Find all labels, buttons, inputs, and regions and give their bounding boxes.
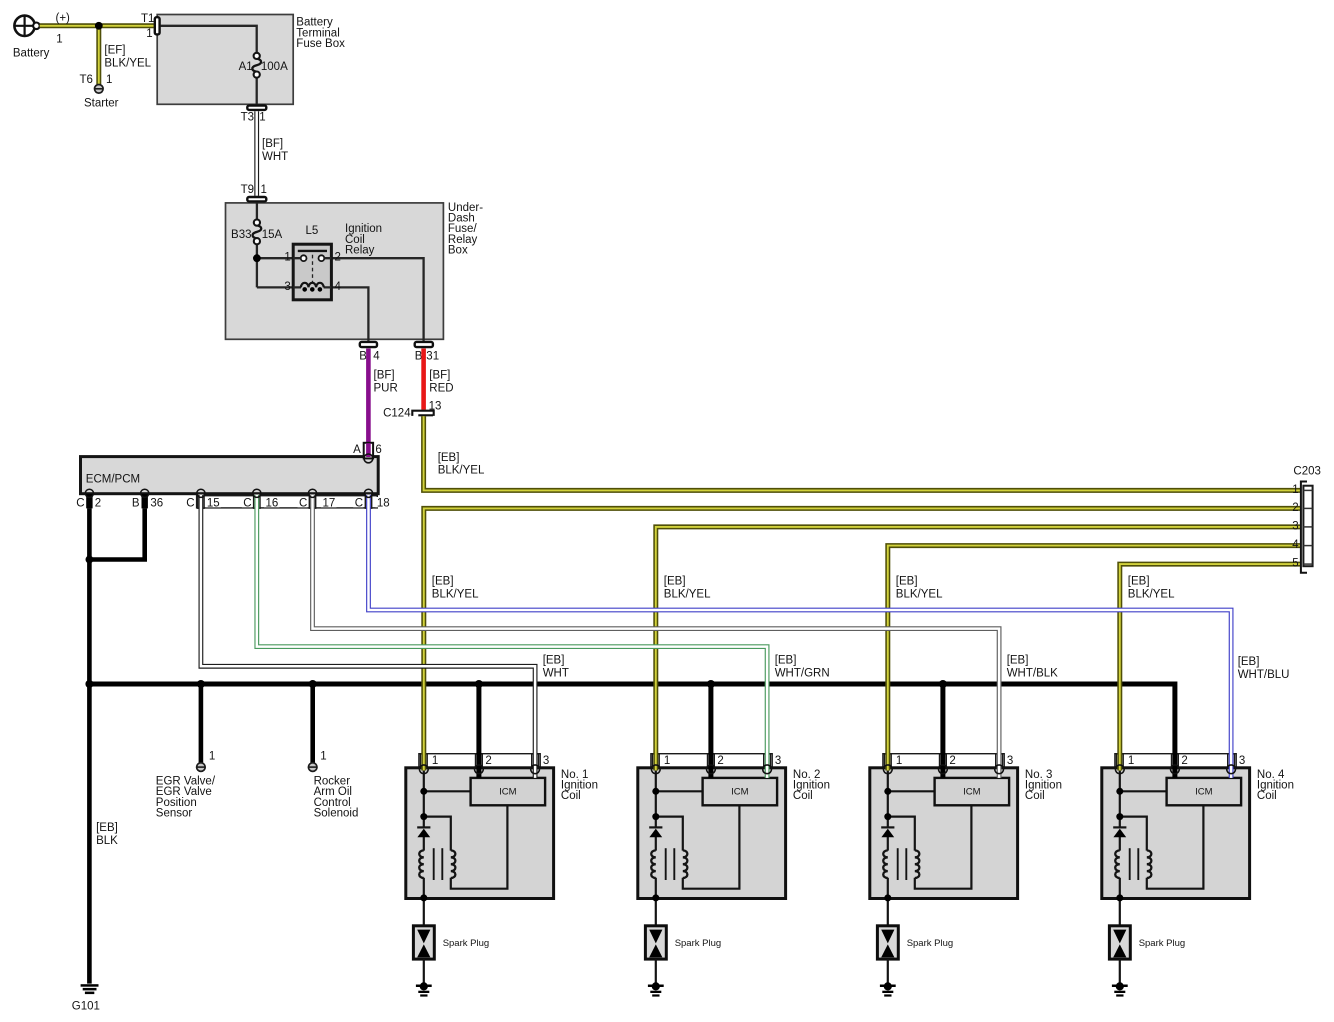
wires bus to coil pin 2: [479, 684, 943, 778]
wire [EB] BLK/YEL C203 pin 4 to coil No. 3 pin 1: [888, 546, 1301, 771]
fuse B33 15A: [231, 220, 282, 245]
svg-text:3: 3: [543, 755, 549, 767]
connector T9: [241, 184, 267, 201]
coil name label No. 3: [1025, 769, 1062, 802]
svg-text:C: C: [355, 498, 363, 510]
svg-text:1: 1: [146, 28, 152, 40]
svg-text:1: 1: [261, 184, 267, 196]
svg-text:T6: T6: [80, 74, 93, 86]
wire [EB] WHT/BLU ECM to coil pin 3: [369, 495, 1232, 778]
ECM bottom connector bracket C15-C18: [197, 496, 378, 508]
relay pin labels: [284, 225, 341, 293]
svg-text:[EB]: [EB]: [1128, 576, 1150, 588]
svg-text:[EB]: [EB]: [438, 452, 460, 464]
rocker arm solenoid label: [314, 775, 359, 819]
EGR valve label: [156, 775, 216, 819]
svg-text:[EB]: [EB]: [664, 576, 686, 588]
svg-text:Coil: Coil: [793, 790, 813, 802]
svg-text:[EB]: [EB]: [543, 655, 565, 667]
svg-text:WHT: WHT: [543, 667, 569, 679]
coil name label No. 4: [1257, 769, 1294, 802]
svg-text:Solenoid: Solenoid: [314, 808, 359, 820]
svg-text:ECM/PCM: ECM/PCM: [86, 474, 140, 486]
ignition coil No. 3: [870, 754, 1018, 926]
svg-text:Coil: Coil: [1025, 790, 1045, 802]
wire [EB] BLK from ECM C2/B36: [89, 508, 144, 559]
svg-text:1: 1: [432, 755, 438, 767]
battery: [14, 16, 39, 36]
svg-text:100A: 100A: [261, 61, 288, 73]
spark plug ground for No. 3: [880, 982, 896, 996]
svg-text:[EB]: [EB]: [96, 822, 118, 834]
svg-text:[BF]: [BF]: [429, 370, 450, 382]
svg-text:Spark Plug: Spark Plug: [443, 938, 489, 949]
pin circles: [85, 454, 1235, 774]
coil name label No. 1: [561, 769, 598, 802]
svg-text:BLK/YEL: BLK/YEL: [432, 589, 479, 601]
svg-text:T1: T1: [141, 13, 154, 25]
spark plug ground for No. 4: [1112, 982, 1128, 996]
svg-text:15: 15: [207, 498, 220, 510]
wire [EB] WHT/BLK ECM to coil pin 3: [313, 495, 1000, 778]
node: battery wire junction: [95, 22, 103, 30]
svg-text:Coil: Coil: [561, 790, 581, 802]
svg-text:ICM: ICM: [499, 787, 517, 798]
svg-text:Spark Plug: Spark Plug: [907, 938, 953, 949]
spark plug ground for No. 2: [648, 982, 664, 996]
svg-text:BLK/YEL: BLK/YEL: [1128, 589, 1175, 601]
spark plug for No. 3: [877, 926, 953, 983]
connector C203: [1301, 482, 1313, 573]
svg-text:3: 3: [1239, 755, 1245, 767]
svg-text:RED: RED: [429, 382, 453, 394]
battery terminal fuse box label: [296, 17, 345, 50]
svg-text:L5: L5: [306, 225, 319, 237]
svg-text:2: 2: [1292, 502, 1298, 514]
ECM pin labels: [76, 497, 391, 510]
battery area labels: [13, 12, 155, 109]
wire [EF] BLK/YEL battery to T1: [40, 23, 154, 28]
svg-text:1: 1: [284, 252, 290, 264]
svg-text:WHT/BLU: WHT/BLU: [1238, 669, 1290, 681]
svg-text:3: 3: [775, 755, 781, 767]
svg-text:PUR: PUR: [374, 382, 398, 394]
svg-text:1: 1: [259, 111, 265, 123]
wire [EB] WHT label: [543, 655, 569, 680]
svg-text:ICM: ICM: [731, 787, 749, 798]
svg-text:17: 17: [323, 498, 336, 510]
svg-text:15A: 15A: [262, 229, 283, 241]
wire [EB] BLK to G101: [89, 560, 118, 984]
ECM pin A16 stub: [353, 443, 382, 459]
svg-text:Fuse Box: Fuse Box: [296, 38, 345, 50]
spark plug ground for No. 1: [416, 982, 432, 996]
battery terminal fuse box: [157, 15, 293, 105]
wire [BF] WHT label: [262, 138, 288, 163]
wire [EB] BLK/YEL C203 pin 2 to coil No. 1 pin 1: [424, 508, 1301, 770]
svg-text:2: 2: [335, 252, 341, 264]
svg-text:Coil: Coil: [1257, 790, 1277, 802]
node: bus junctions: [85, 680, 947, 688]
svg-text:WHT/GRN: WHT/GRN: [775, 667, 830, 679]
svg-text:5: 5: [1292, 558, 1298, 570]
svg-text:T9: T9: [241, 184, 254, 196]
svg-text:3: 3: [284, 281, 290, 293]
svg-text:Starter: Starter: [84, 98, 119, 110]
wire ground bus: [89, 684, 1175, 778]
svg-text:T3: T3: [241, 111, 254, 123]
svg-text:C: C: [243, 498, 251, 510]
svg-text:13: 13: [429, 400, 442, 412]
connector C124: [383, 400, 441, 419]
svg-text:2: 2: [1181, 755, 1187, 767]
svg-text:C203: C203: [1293, 466, 1321, 478]
svg-text:Sensor: Sensor: [156, 808, 193, 820]
node: fuse B33 junction: [253, 254, 261, 262]
svg-text:A1: A1: [239, 61, 253, 73]
wire [EB] WHT/BLK label: [1007, 655, 1058, 680]
svg-text:C124: C124: [383, 408, 411, 420]
svg-text:BLK/YEL: BLK/YEL: [664, 589, 711, 601]
svg-text:WHT/BLK: WHT/BLK: [1007, 667, 1058, 679]
svg-text:[BF]: [BF]: [262, 138, 283, 150]
svg-text:[EB]: [EB]: [1007, 655, 1029, 667]
wire [EB] WHT/BLU label: [1238, 656, 1290, 681]
wire [EB] BLK/YEL label (coil 3): [896, 576, 943, 601]
wire [EB] WHT/GRN label: [775, 655, 830, 680]
ground G101: [72, 984, 100, 1012]
svg-text:[EB]: [EB]: [896, 576, 918, 588]
svg-text:3: 3: [1292, 521, 1298, 533]
relay L5 (ignition coil relay): [293, 244, 331, 300]
svg-text:B: B: [359, 351, 367, 363]
wire [EB] WHT ECM to coil pin 3: [201, 495, 535, 778]
svg-text:BLK/YEL: BLK/YEL: [104, 58, 151, 70]
svg-text:2: 2: [95, 498, 101, 510]
svg-text:1: 1: [896, 755, 902, 767]
svg-text:B: B: [132, 498, 140, 510]
wire [EB] BLK/YEL C203 pin 3 to coil No. 2 pin 1: [656, 527, 1301, 771]
wire [EB] BLK/YEL label (coil 1): [432, 576, 479, 601]
spark plug for No. 2: [645, 926, 721, 983]
svg-text:[EB]: [EB]: [432, 576, 454, 588]
wire [EF] BLK/YEL to starter: [96, 26, 101, 85]
svg-text:B33: B33: [231, 229, 251, 241]
wire [EB] BLK/YEL label (coil 2): [664, 576, 711, 601]
svg-text:31: 31: [426, 351, 439, 363]
svg-text:WHT: WHT: [262, 151, 288, 163]
spark plug for No. 4: [1109, 926, 1185, 983]
wire [BF] WHT T3 to T9: [254, 111, 259, 196]
fuse A1 100A: [239, 53, 288, 78]
svg-text:2: 2: [485, 755, 491, 767]
svg-text:4: 4: [373, 351, 380, 363]
wire [BF] PUR relay to ECM A16: [368, 349, 397, 444]
svg-text:A: A: [353, 444, 361, 456]
svg-text:3: 3: [1007, 755, 1013, 767]
svg-text:Spark Plug: Spark Plug: [1139, 938, 1185, 949]
svg-text:Battery: Battery: [13, 47, 50, 59]
spark plug for No. 1: [413, 926, 489, 983]
svg-text:[EB]: [EB]: [1238, 656, 1260, 668]
svg-text:1: 1: [106, 74, 112, 86]
svg-text:36: 36: [150, 498, 163, 510]
svg-text:1: 1: [1292, 484, 1298, 496]
svg-text:[EB]: [EB]: [775, 655, 797, 667]
wire [BF] RED relay to C124: [424, 349, 454, 410]
svg-text:BLK/YEL: BLK/YEL: [438, 465, 485, 477]
node: C2/B36 join: [86, 556, 94, 564]
connector T1: [155, 17, 160, 34]
under-dash fuse/relay box label: [448, 202, 483, 257]
connector B31: [415, 342, 439, 363]
svg-text:(+): (+): [56, 12, 71, 24]
EGR valve terminal: [197, 750, 216, 771]
ignition coil No. 2: [638, 754, 786, 926]
wire inside battery fuse box: [161, 26, 257, 104]
svg-text:Spark Plug: Spark Plug: [675, 938, 721, 949]
svg-text:18: 18: [377, 498, 390, 510]
C203 pin labels: [1292, 466, 1321, 570]
svg-text:1: 1: [1128, 755, 1134, 767]
svg-text:Box: Box: [448, 245, 468, 257]
svg-text:1: 1: [209, 750, 215, 762]
svg-text:BLK/YEL: BLK/YEL: [896, 589, 943, 601]
svg-text:2: 2: [949, 755, 955, 767]
svg-text:1: 1: [320, 750, 326, 762]
svg-text:ICM: ICM: [1195, 787, 1213, 798]
relay name label: [345, 223, 382, 256]
svg-text:4: 4: [335, 281, 342, 293]
svg-text:C: C: [76, 498, 84, 510]
ignition coil No. 4: [1102, 754, 1250, 926]
svg-text:4: 4: [1292, 539, 1299, 551]
under-dash fuse/relay box: [226, 203, 444, 339]
svg-text:[EF]: [EF]: [104, 45, 125, 57]
ECM/PCM: [81, 457, 379, 494]
wire [EB] BLK/YEL C124 to C203 pin 1: [424, 416, 1301, 490]
connector B4: [359, 342, 380, 363]
wires inside under-dash box: [257, 203, 424, 341]
wire to rocker arm oil control solenoid: [310, 684, 315, 763]
coil name label No. 2: [793, 769, 830, 802]
svg-text:C: C: [299, 498, 307, 510]
svg-text:1: 1: [664, 755, 670, 767]
svg-text:16: 16: [266, 498, 279, 510]
ignition coil No. 1: [406, 754, 554, 926]
svg-text:[BF]: [BF]: [374, 370, 395, 382]
svg-text:C: C: [186, 498, 194, 510]
svg-text:ICM: ICM: [963, 787, 981, 798]
svg-text:2: 2: [717, 755, 723, 767]
wire [EB] BLK/YEL label (C124): [438, 452, 485, 477]
svg-text:6: 6: [375, 444, 381, 456]
wire to EGR valve: [199, 684, 204, 763]
connector T3: [241, 106, 267, 124]
wire [EB] WHT/GRN ECM to coil pin 3: [257, 495, 767, 778]
wire [EB] BLK/YEL label (coil 4): [1128, 576, 1175, 601]
starter terminal T6: [95, 85, 104, 94]
svg-text:1: 1: [56, 33, 62, 45]
ECM pin stubs: [86, 494, 372, 509]
svg-text:BLK: BLK: [96, 835, 118, 847]
svg-text:Relay: Relay: [345, 245, 375, 257]
wire [EB] BLK/YEL C203 pin 5 to coil No. 4 pin 1: [1120, 564, 1301, 770]
svg-text:G101: G101: [72, 1001, 100, 1013]
rocker arm solenoid terminal: [308, 750, 326, 771]
